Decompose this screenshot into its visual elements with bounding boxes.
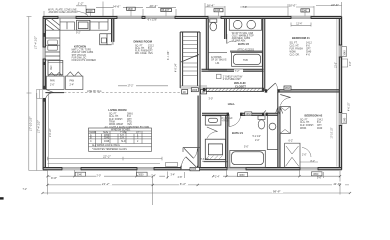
svg-text:9'-2": 9'-2" xyxy=(76,32,81,34)
svg-text:2' SHELF UNIT W/: 2' SHELF UNIT W/ xyxy=(223,76,243,78)
svg-text:3040: 3040 xyxy=(77,174,83,176)
svg-text:BEDROOM #2: BEDROOM #2 xyxy=(305,114,323,118)
closet notes xyxy=(223,76,243,81)
svg-text:2'-4": 2'-4" xyxy=(70,85,75,87)
window bottom wall living 3050 xyxy=(137,167,154,170)
svg-text:SQ. FT.: SQ. FT. xyxy=(300,119,308,121)
kitchen upper cabinets top row xyxy=(45,18,108,30)
dining dim 17'-2 xyxy=(118,85,168,87)
svg-text:SIZE: SIZE xyxy=(103,132,109,134)
svg-text:3050: 3050 xyxy=(239,175,245,177)
svg-text:3438: 3438 xyxy=(87,11,93,13)
walk-in closet label xyxy=(234,81,246,88)
svg-text:FLR. FINISH: FLR. FINISH xyxy=(300,125,314,127)
svg-text:CULT. MARBLE TOP: CULT. MARBLE TOP xyxy=(232,34,254,37)
svg-text:5'-6": 5'-6" xyxy=(317,177,322,179)
svg-text:CPT.: CPT. xyxy=(306,49,311,51)
svg-text:10'-6": 10'-6" xyxy=(331,3,340,7)
dim line 2 bottom xyxy=(48,184,350,186)
svg-text:8'-0: 8'-0 xyxy=(306,46,311,48)
svg-text:20'-4": 20'-4" xyxy=(149,4,159,8)
dim text 2'-4 right of entry xyxy=(215,175,224,179)
svg-text:2'-0": 2'-0" xyxy=(50,85,55,87)
linen notes xyxy=(211,57,227,62)
svg-text:3438: 3438 xyxy=(215,10,221,12)
svg-text:7'-2": 7'-2" xyxy=(23,189,28,191)
attic access line xyxy=(230,51,263,52)
bed2 door leaf and swing xyxy=(280,95,290,106)
svg-text:3040: 3040 xyxy=(306,52,312,54)
dim 7'-2 on wall xyxy=(234,69,243,73)
door opening left wall (kitchen side door) xyxy=(43,89,47,99)
svg-text:LIN.: LIN. xyxy=(216,63,221,65)
svg-text:141.2: 141.2 xyxy=(306,43,313,45)
bed2 SW closet xyxy=(285,143,301,167)
svg-text:LINE OF CLG: LINE OF CLG xyxy=(87,91,102,93)
window dining top wall 3838 xyxy=(117,16,142,19)
svg-text:BEDROOM #1: BEDROOM #1 xyxy=(292,36,310,40)
svg-text:SLD: SLD xyxy=(121,141,126,143)
front door tag 36X07 xyxy=(190,167,200,171)
svg-text:17'-4 1/2": 17'-4 1/2" xyxy=(33,35,37,49)
wall bottom exterior xyxy=(43,168,342,170)
living room schedule text xyxy=(105,114,150,129)
svg-text:DINING ROOM: DINING ROOM xyxy=(134,39,153,43)
right bracket lines bed1 xyxy=(342,59,348,67)
bedroom1 schedule text xyxy=(290,43,313,57)
svg-text:4'-6 1/2": 4'-6 1/2" xyxy=(349,102,351,111)
kitchen corner diagonal cabinet xyxy=(45,18,60,30)
svg-text:WD. CASE: WD. CASE xyxy=(135,52,147,55)
svg-text:5'-2 1/2": 5'-2 1/2" xyxy=(253,136,262,138)
door jamb blobs hall wall xyxy=(203,88,280,116)
vanity sink right xyxy=(247,20,256,29)
svg-text:FLR. FINISH: FLR. FINISH xyxy=(290,49,304,51)
svg-text:16'-4": 16'-4" xyxy=(207,4,216,8)
svg-text:7'-8": 7'-8" xyxy=(243,7,248,9)
svg-text:FOR 24 CTS CORNER: FOR 24 CTS CORNER xyxy=(72,60,97,62)
bed1/bath2 divider wall xyxy=(263,18,265,91)
bedroom2 schedule text xyxy=(300,119,324,129)
window left wall kitchen xyxy=(43,47,46,59)
svg-text:3'-0": 3'-0" xyxy=(209,99,214,101)
kitchen south wall to door xyxy=(45,92,64,94)
svg-text:10'-0": 10'-0" xyxy=(289,4,298,8)
svg-text:3040: 3040 xyxy=(345,117,347,123)
kitchen range box xyxy=(77,20,90,30)
riser tag 2R left xyxy=(182,90,188,95)
svg-text:BATH #1: BATH #1 xyxy=(232,131,244,135)
linen closet shelf lines xyxy=(208,52,227,70)
svg-text:MARK: MARK xyxy=(90,131,97,134)
window schedule table xyxy=(89,128,152,151)
dim line left xyxy=(27,17,48,171)
window tag 3050 bottom bath1 xyxy=(238,173,248,177)
foyer closet by entry xyxy=(183,148,200,153)
fireplace xyxy=(205,139,225,159)
vanity bath1 xyxy=(267,115,278,149)
svg-text:6'-2": 6'-2" xyxy=(289,141,294,143)
svg-text:-6' x 13'6": -6' x 13'6" xyxy=(147,19,157,21)
svg-text:2R: 2R xyxy=(202,92,205,94)
dim tick marks bottom dim line 1 xyxy=(46,175,341,178)
toilet bath1 bowl xyxy=(258,120,265,129)
svg-text:OF 16" SHLVS: OF 16" SHLVS xyxy=(211,60,227,62)
window tag 3050 bottom living xyxy=(137,172,148,176)
interior dim line above bottom wall living xyxy=(48,157,163,161)
refrigerator xyxy=(48,61,63,75)
svg-text:REF: REF xyxy=(51,65,53,70)
window bottom wall bath1 3050 xyxy=(227,167,246,170)
toilet bath2 bowl xyxy=(210,22,217,30)
front door leaf and swing xyxy=(181,157,197,168)
wall below bath2/linen xyxy=(202,69,264,71)
svg-text:3040: 3040 xyxy=(104,138,110,140)
svg-text:2'-8": 2'-8" xyxy=(178,177,183,179)
fireplace hatch xyxy=(205,156,222,160)
interior dim line foyer 7-8 xyxy=(202,160,226,162)
dining room schedule text xyxy=(135,45,155,55)
bed2 closet west strip xyxy=(280,107,290,134)
svg-text:AND 42" UPR CABS: AND 42" UPR CABS xyxy=(72,51,94,54)
svg-text:22'-2": 22'-2" xyxy=(102,154,112,158)
svg-text:3838: 3838 xyxy=(128,9,134,11)
svg-text:17'-10 1/2": 17'-10 1/2" xyxy=(29,116,33,131)
closet door arc xyxy=(207,127,218,139)
pantry closet 2 xyxy=(66,76,83,89)
door leaf + swing kitchen side door xyxy=(46,89,54,98)
dim text 56'-8 overall xyxy=(272,189,283,193)
svg-text:LT. BAR ABV.: LT. BAR ABV. xyxy=(232,40,246,43)
closet south wall hatched xyxy=(206,88,263,91)
toilet bath2 tank xyxy=(210,19,217,22)
svg-text:2868: 2868 xyxy=(192,90,198,92)
kitchen right wall xyxy=(112,18,114,42)
svg-text:8'-0: 8'-0 xyxy=(317,122,322,124)
svg-text:KITCHEN: KITCHEN xyxy=(74,45,86,49)
svg-text:WDW. WRAP: WDW. WRAP xyxy=(109,123,124,126)
svg-text:AND WD CASE LOCATION: AND WD CASE LOCATION xyxy=(49,11,78,14)
svg-text:2'-0": 2'-0" xyxy=(97,175,102,177)
bed1 south wall xyxy=(265,90,340,92)
svg-text:17'-10 1/2": 17'-10 1/2" xyxy=(332,127,334,138)
kitchen sink double bowl xyxy=(48,40,58,50)
svg-text:SQ. FT.: SQ. FT. xyxy=(290,43,298,45)
toilet bath1 tank xyxy=(258,116,265,120)
vanity sink left xyxy=(233,20,242,29)
svg-text:13'-5": 13'-5" xyxy=(336,62,338,68)
leader line note xyxy=(77,11,88,16)
svg-text:4'-0: 4'-0 xyxy=(306,55,311,57)
dim text 2'-0 xyxy=(96,174,104,178)
scan artifact bottom-left edge xyxy=(0,197,4,199)
dim line under bedroom1 window 12'-4 xyxy=(291,23,311,27)
svg-text:LIVING ROOM: LIVING ROOM xyxy=(108,108,127,112)
svg-text:ATTIC ACCESS: ATTIC ACCESS xyxy=(237,48,254,51)
window tag 3050 bottom bed2 xyxy=(312,172,323,176)
svg-text:17'-2": 17'-2" xyxy=(128,86,134,88)
svg-text:21'-2": 21'-2" xyxy=(101,182,111,186)
vanity bath2 counter xyxy=(229,18,261,30)
dim text 21'-2 xyxy=(101,182,112,186)
window ledge line above bottom wall xyxy=(48,162,161,164)
svg-text:2868: 2868 xyxy=(285,88,291,90)
entry stoop outside xyxy=(166,163,178,167)
bath2 divider wall toilet/vanity xyxy=(225,18,227,39)
window tag 3040 bottom xyxy=(75,172,86,176)
svg-text:WDW.: WDW. xyxy=(300,128,307,130)
coat closet note xyxy=(222,118,234,123)
svg-text:3'-4": 3'-4" xyxy=(171,175,176,177)
svg-text:4'-0 1/4": 4'-0 1/4" xyxy=(176,63,178,72)
svg-text:ALL WDWS LOW-E INSUL: ALL WDWS LOW-E INSUL xyxy=(92,144,121,147)
stair break line xyxy=(181,55,199,63)
svg-text:MAT'L CTR. TOPS: MAT'L CTR. TOPS xyxy=(72,49,92,52)
window bottom wall living 3040 xyxy=(62,167,81,170)
dim text 11'-6 xyxy=(333,182,345,186)
hearth line xyxy=(204,161,228,163)
bath1 door leaf and swing xyxy=(229,114,241,126)
svg-text:14'-6": 14'-6" xyxy=(113,5,122,9)
svg-text:17'-4 1/2": 17'-4 1/2" xyxy=(37,119,41,133)
svg-text:HALL: HALL xyxy=(228,102,236,106)
closet shelf unit note box xyxy=(217,74,222,79)
bath2 notes text xyxy=(232,32,254,43)
svg-text:AND MED. CABS: AND MED. CABS xyxy=(232,37,251,40)
dim text 8'-2 inside bed2 xyxy=(300,161,318,163)
svg-text:2' FUTURE UNIT: 2' FUTURE UNIT xyxy=(223,79,241,81)
svg-text:PAN: PAN xyxy=(50,80,55,83)
svg-text:7'-2": 7'-2" xyxy=(235,71,240,73)
window bedroom1 top wall 3040 xyxy=(291,16,311,19)
svg-text:(1) SHELF: (1) SHELF xyxy=(222,118,234,120)
dim text 6'-4 xyxy=(179,182,188,186)
svg-text:12'-4": 12'-4" xyxy=(296,23,302,25)
svg-text:1'-2": 1'-2" xyxy=(78,2,85,6)
svg-text:134.2: 134.2 xyxy=(317,119,324,121)
svg-text:PAN: PAN xyxy=(70,80,75,83)
svg-text:5'-0": 5'-0" xyxy=(244,147,249,149)
svg-text:6'-4": 6'-4" xyxy=(180,182,187,186)
riser tag 2R right xyxy=(201,90,207,95)
window tag 3438 kitchen xyxy=(86,9,94,13)
svg-text:2'-8 1/2": 2'-8 1/2" xyxy=(50,128,52,137)
kitchen left counter run xyxy=(45,30,60,76)
svg-text:YES: YES xyxy=(127,124,132,126)
svg-text:CPT.: CPT. xyxy=(317,125,322,127)
window bath2 top wall 3438 xyxy=(208,16,221,19)
rotated window tag 3040 bed1 right xyxy=(342,47,347,57)
svg-text:2'-4": 2'-4" xyxy=(215,177,220,179)
window tag 3040 bedroom1 xyxy=(301,9,310,13)
window bottom wall bedroom2 3050 xyxy=(300,167,318,170)
window schedule rows xyxy=(90,131,142,151)
foyer closet angled door xyxy=(184,148,197,158)
ceiling break dashed line living/kitchen xyxy=(64,92,180,94)
stair treads xyxy=(183,37,198,76)
dim text 2'-4 xyxy=(151,174,160,178)
bath1 west wall xyxy=(226,115,228,167)
bifold door marks pantry xyxy=(48,72,82,76)
svg-text:2'-0": 2'-0" xyxy=(302,154,307,156)
svg-text:W/ PL. PLATE, COVE LINE: W/ PL. PLATE, COVE LINE xyxy=(48,8,77,11)
kitchen text block xyxy=(72,45,97,62)
interior ledge line along right wall xyxy=(336,19,338,167)
window tag 3838 dining xyxy=(127,7,136,11)
stairwell walls xyxy=(180,32,200,96)
svg-text:QTY: QTY xyxy=(136,132,141,134)
dim line segments top xyxy=(76,6,342,8)
svg-text:6'- 1 3/4": 6'- 1 3/4" xyxy=(168,51,170,60)
svg-text:CLG. HT.: CLG. HT. xyxy=(290,46,300,48)
svg-text:TYPE: TYPE xyxy=(120,132,127,134)
tag leader ticks xyxy=(91,10,306,16)
dim extension lines above top wall xyxy=(44,2,342,17)
front door opening bottom wall xyxy=(181,166,198,169)
window right wall bedroom2 3040 xyxy=(339,113,342,126)
wall poché blobs left wall xyxy=(43,33,46,102)
wall left exterior xyxy=(43,16,45,169)
svg-text:2R: 2R xyxy=(183,92,186,94)
svg-text:3040: 3040 xyxy=(317,128,323,130)
window tag 3438 bath2 xyxy=(214,9,223,13)
dim text 6'-6 xyxy=(51,176,60,180)
window right wall bedroom1 3040 xyxy=(339,45,342,57)
coat closet xyxy=(205,116,221,125)
svg-text:YES: YES xyxy=(148,53,153,55)
linen2 door opening marks xyxy=(263,111,266,115)
bed1 door leaf and swing xyxy=(267,83,278,91)
kitchen peninsula counter xyxy=(100,34,112,45)
dim tick marks bottom dim lines 2 3 xyxy=(41,184,351,194)
tub bath2 xyxy=(232,53,263,67)
pantry closet 1 xyxy=(47,76,65,89)
dim line 1 bottom xyxy=(48,170,341,205)
svg-text:S.H.: S.H. xyxy=(120,138,125,140)
side door stoop outside left wall xyxy=(37,90,43,99)
tub bath1 bottom xyxy=(230,151,265,168)
wall right exterior xyxy=(339,16,341,169)
window ledge line along left wall xyxy=(47,94,49,168)
door tag 2668 bath1 xyxy=(245,112,252,116)
svg-text:W/ 36" HI VAN. CAB: W/ 36" HI VAN. CAB xyxy=(232,32,254,35)
svg-text:* DENOTES TEMPERED GLASS: * DENOTES TEMPERED GLASS xyxy=(92,148,127,151)
svg-text:CLO. DR.: CLO. DR. xyxy=(290,55,300,57)
svg-text:3040: 3040 xyxy=(302,10,308,12)
wall fill tint (scan gray between wall lines) xyxy=(43,16,342,169)
door tag 2868 bed1 xyxy=(284,86,291,90)
foyer west wall xyxy=(198,96,200,168)
window/sliding door 68-EXT top wall xyxy=(145,16,175,19)
svg-text:3'-0": 3'-0" xyxy=(350,61,352,66)
svg-text:3068: 3068 xyxy=(191,169,197,171)
svg-text:BATH #2: BATH #2 xyxy=(238,42,250,46)
bed2 closet door swing xyxy=(302,148,311,158)
hall south wall xyxy=(202,113,278,115)
svg-text:3050: 3050 xyxy=(138,174,144,176)
svg-text:CLG. HT.: CLG. HT. xyxy=(300,122,310,124)
wall top exterior xyxy=(43,16,342,18)
window kitchen top wall xyxy=(58,16,76,19)
svg-text:3040: 3040 xyxy=(345,50,347,56)
door tag 2868 hall xyxy=(191,88,198,92)
svg-text:68-EXT: 68-EXT xyxy=(162,10,170,12)
bed2 west wall xyxy=(278,92,280,168)
bath2 door leaf and swing xyxy=(227,34,236,44)
svg-text:8'-2": 8'-2" xyxy=(311,161,316,163)
svg-text:6'-6": 6'-6" xyxy=(51,176,58,180)
rotated window tag 3040 bed2 right xyxy=(342,114,347,124)
bath2 west wall xyxy=(206,18,208,70)
svg-text:2'-0": 2'-0" xyxy=(255,140,260,142)
stair bottom steps to hall xyxy=(180,86,207,88)
svg-text:TUB: TUB xyxy=(243,60,248,62)
svg-text:2668: 2668 xyxy=(246,114,252,116)
svg-text:WALK-IN: WALK-IN xyxy=(234,81,246,85)
dim line 3 bottom overall xyxy=(43,192,351,194)
svg-text:WDW.: WDW. xyxy=(290,52,297,54)
svg-text:3050: 3050 xyxy=(313,174,319,176)
svg-text:3438: 3438 xyxy=(104,141,110,143)
bed2 entry bifold zigzag xyxy=(276,109,283,114)
svg-text:11'-6": 11'-6" xyxy=(333,182,341,186)
door tag 68-EXT xyxy=(161,8,172,12)
svg-text:56'-8": 56'-8" xyxy=(273,190,282,194)
